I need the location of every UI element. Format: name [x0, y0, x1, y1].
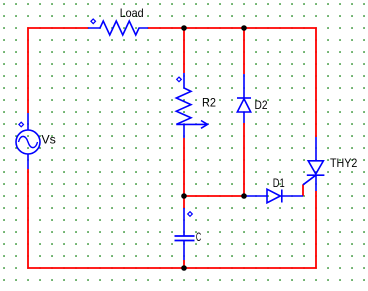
AC source Vs — [16, 113, 40, 169]
svg-text:D2: D2 — [255, 98, 268, 112]
wire: R2 top lead (184,28)-(184,73) — [183, 28, 185, 73]
wire: D2 bottom lead (244,123)-(244,196) — [243, 123, 245, 196]
wire: capacitor top lead (184,196)-(184,208) — [183, 196, 185, 208]
wire: R2 bottom lead (184,138)-(184,196) — [183, 138, 185, 196]
svg-text:Vs: Vs — [41, 132, 56, 146]
wire: left branch and top-left segment (28,113)-(28,28)-(88,28) — [28, 28, 88, 113]
thyristor THY2 — [303, 137, 324, 191]
junction node at (184,196) — [181, 193, 187, 199]
wire: THY2 gate riser (303,196)-(303,184.5) — [302, 185, 304, 197]
svg-text:D1: D1 — [273, 176, 285, 190]
resistor R2 (with wiper arrow) — [176, 73, 207, 138]
junction node at (244,196) — [241, 193, 247, 199]
svg-text:R2: R2 — [202, 95, 216, 109]
svg-text:C: C — [196, 230, 202, 244]
svg-text:Load: Load — [120, 6, 144, 20]
diode D1 — [246, 189, 303, 203]
junction node at (184,268) — [181, 265, 187, 271]
wire: mid horizontal (184,196)-(244,196) — [184, 195, 244, 197]
diode D2 — [237, 74, 251, 123]
wire: bottom loop (28,169)-(28,268)-(316,268)-(316,191) — [28, 169, 316, 268]
junction node at (244,28) — [241, 25, 247, 31]
svg-text:THY2: THY2 — [330, 156, 358, 170]
resistor Load — [88, 19, 148, 35]
junction node at (184,28) — [181, 25, 187, 31]
wire: top-right segment and THY2 anode drop (148,28)-(316,28)-(316,137) — [148, 28, 316, 137]
wire: capacitor bottom lead (184,260)-(184,268) — [183, 260, 185, 268]
capacitor C — [175, 208, 195, 260]
wire: D2 top lead (244,28)-(244,74) — [243, 28, 245, 74]
